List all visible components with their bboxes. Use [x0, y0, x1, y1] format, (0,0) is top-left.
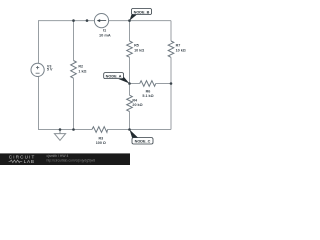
watermark bar	[0, 153, 130, 165]
wire middle branch R5 to R4 (through node A)	[129, 57, 131, 95]
junction R6 right at R7 branch	[170, 82, 173, 85]
wire node A to R6 left	[130, 83, 140, 85]
svg-text:R3: R3	[98, 136, 103, 140]
ground	[54, 130, 65, 141]
current source I1	[94, 14, 108, 28]
svg-text:100 Ω: 100 Ω	[96, 141, 106, 145]
wire R6 right to R7 branch	[156, 83, 171, 85]
junction node B	[128, 19, 131, 22]
resistor R3	[92, 127, 108, 133]
wire R7 branch lower	[170, 57, 172, 129]
wire R2 branch lower	[73, 78, 75, 129]
svg-text:R2: R2	[78, 64, 83, 68]
svg-text:R7: R7	[176, 44, 181, 48]
svg-text:R6: R6	[146, 89, 151, 93]
junction top wire at I1 left lead	[86, 19, 89, 22]
wire middle branch NODE_B to R5	[129, 21, 131, 41]
svg-text:LAB: LAB	[24, 159, 35, 164]
node NODE_A	[104, 73, 130, 84]
svg-text:NODE_B: NODE_B	[134, 10, 150, 14]
svg-text:R5: R5	[134, 44, 139, 48]
wire bottom-left L (V3 bottom to R3 left)	[39, 77, 93, 130]
svg-text:10 kΩ: 10 kΩ	[134, 49, 144, 53]
svg-text:10 kΩ: 10 kΩ	[176, 49, 186, 53]
resistor R7	[168, 41, 174, 57]
svg-text:1 kΩ: 1 kΩ	[78, 69, 86, 73]
wire bottom-right (R3 right to R7 branch)	[108, 129, 172, 131]
wire middle branch R4 to NODE_C	[129, 112, 131, 130]
node NODE_B	[130, 9, 152, 21]
svg-text:htp://circuitlab.com/c/pxjydg5: htp://circuitlab.com/c/pxjydg5jw8	[47, 158, 96, 162]
wire R7 branch upper	[170, 21, 172, 41]
node NODE_C	[130, 130, 154, 145]
junction bottom wire at R2 branch	[72, 128, 75, 131]
svg-text:NODE_C: NODE_C	[135, 140, 151, 144]
svg-text:20 kΩ: 20 kΩ	[132, 103, 142, 107]
wire R2 branch upper	[73, 21, 75, 61]
resistor R5	[127, 41, 133, 57]
wire top-left L (V3 top to I1 left lead)	[39, 21, 95, 64]
svg-text:5 V: 5 V	[47, 68, 53, 72]
junction top wire at R2 branch	[72, 19, 75, 22]
wire top-right (I1 right to NODE_B and R7 corner)	[109, 20, 171, 22]
resistor R4	[127, 95, 133, 111]
voltage source V3	[31, 63, 44, 76]
junction node A	[128, 82, 131, 85]
resistor R2	[71, 61, 77, 79]
junction bottom wire at ground	[59, 128, 62, 131]
svg-text:5.1 kΩ: 5.1 kΩ	[142, 94, 153, 98]
CircuitLab logo	[9, 155, 36, 165]
svg-text:NODE_A: NODE_A	[106, 74, 122, 78]
resistor R6	[140, 81, 156, 87]
svg-text:10 mA: 10 mA	[99, 32, 111, 37]
junction node C	[128, 128, 131, 131]
